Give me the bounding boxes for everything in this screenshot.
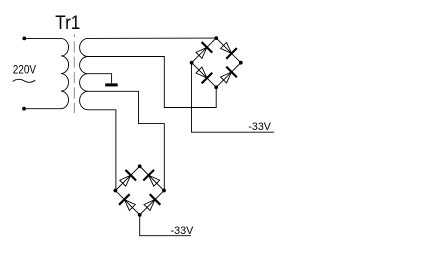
svg-text:Tr1: Tr1 (55, 13, 80, 34)
svg-text:-33V: -33V (171, 225, 194, 237)
svg-text:220V: 220V (13, 62, 36, 76)
svg-text:-33V: -33V (248, 121, 271, 133)
